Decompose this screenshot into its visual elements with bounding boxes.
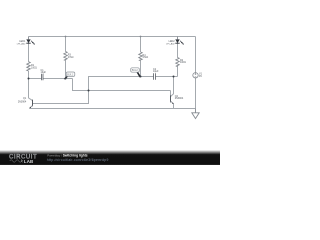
probe flag bubble 1 bbox=[64, 72, 75, 79]
wire mid vertical down branch to Q1 base bbox=[33, 91, 89, 104]
svg-text:http:∕∕circuitlab.com∕c6e3f6pe: http:∕∕circuitlab.com∕c6e3f6pem∕dp9 bbox=[47, 158, 109, 162]
svg-text:9V: 9V bbox=[199, 75, 202, 78]
node R4 bottom junction dot bbox=[140, 76, 142, 78]
wire node A to C1 left plate bbox=[29, 78, 42, 80]
footer bar bbox=[0, 150, 220, 165]
wire R4 column lower bbox=[140, 60, 142, 77]
svg-text:10µF: 10µF bbox=[41, 71, 47, 74]
svg-text:BUL1: BUL1 bbox=[67, 73, 74, 76]
wire top rail V+ bbox=[29, 36, 196, 38]
wire Q2 emitter vertical bbox=[173, 104, 175, 109]
wire battery bottom column bbox=[195, 78, 197, 109]
transistor Q1 bbox=[18, 97, 33, 109]
transistor Q2 bbox=[171, 95, 184, 104]
wire R2 bottom down to net bbox=[177, 66, 179, 77]
wire R3 column upper bbox=[65, 37, 67, 52]
svg-text:10µF: 10µF bbox=[153, 70, 159, 73]
wire R3 column lower bbox=[65, 60, 67, 79]
wire LED1 cathode to R1 top bbox=[28, 43, 30, 61]
LED LED2 bbox=[166, 37, 184, 46]
resistor R3 bbox=[64, 52, 67, 61]
svg-text:100Ω: 100Ω bbox=[180, 61, 186, 64]
svg-text:Pweeblay / Switching lights: Pweeblay / Switching lights bbox=[47, 153, 88, 157]
wire step down and across to Q2 base bbox=[73, 79, 171, 91]
svg-text:BUL2: BUL2 bbox=[132, 69, 139, 72]
capacitor C2 bbox=[154, 73, 156, 79]
wire R1 bottom to node A bbox=[28, 71, 30, 79]
svg-text:47kΩ: 47kΩ bbox=[143, 56, 149, 59]
node mid junction dot bbox=[88, 90, 90, 92]
node Q2 collector junction dot bbox=[173, 76, 175, 78]
resistor R4 bbox=[139, 52, 142, 61]
wire battery top column bbox=[195, 37, 197, 73]
capacitor C1 bbox=[42, 74, 44, 80]
voltage source V1 bbox=[193, 73, 203, 78]
svg-text:LPL-A02: LPL-A02 bbox=[166, 42, 175, 45]
wire C2 right plate to LED2 column bbox=[156, 76, 178, 78]
svg-text:2N3904: 2N3904 bbox=[175, 97, 184, 100]
wire Q2 base feed vertical bbox=[170, 91, 172, 96]
node R3 bottom junction dot bbox=[65, 78, 67, 80]
svg-text:47kΩ: 47kΩ bbox=[68, 56, 74, 59]
probe flag bubble 2 bbox=[131, 68, 142, 78]
svg-text:100Ω: 100Ω bbox=[31, 66, 37, 69]
node top rail R3 junction dot bbox=[65, 36, 67, 38]
ground bbox=[192, 109, 199, 119]
node top rail R4 junction dot bbox=[140, 36, 142, 38]
resistor R2 bbox=[176, 58, 179, 67]
wire Q2 collector vertical bbox=[171, 77, 174, 97]
CircuitLab logo bbox=[9, 155, 37, 164]
LED LED1 bbox=[17, 37, 35, 46]
svg-text:2N3904: 2N3904 bbox=[18, 100, 27, 103]
wire mid vertical up branch bbox=[89, 77, 154, 91]
resistor R1 bbox=[27, 62, 30, 71]
svg-text:LPL-A02: LPL-A02 bbox=[17, 42, 26, 45]
wire bottom emitter rail bbox=[30, 108, 196, 110]
wire LED2 cathode to R2 top bbox=[177, 43, 179, 57]
wire C1 right plate to step corner bbox=[43, 78, 73, 80]
svg-text:LAB: LAB bbox=[24, 159, 33, 164]
wire Q1 collector vertical bbox=[29, 79, 33, 101]
wire R4 column upper bbox=[140, 37, 142, 53]
node A junction dot bbox=[28, 78, 30, 80]
